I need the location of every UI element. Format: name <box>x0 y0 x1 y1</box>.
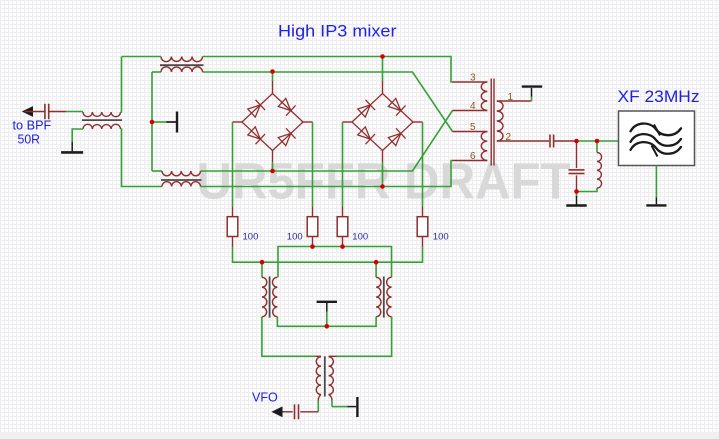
svg-text:100: 100 <box>287 231 303 242</box>
svg-text:4: 4 <box>470 101 476 112</box>
svg-text:VFO: VFO <box>252 390 278 405</box>
svg-text:100: 100 <box>352 231 368 242</box>
svg-text:1: 1 <box>508 92 514 103</box>
svg-text:6: 6 <box>470 151 476 162</box>
svg-text:5: 5 <box>470 122 476 133</box>
svg-text:XF 23MHz: XF 23MHz <box>618 87 700 106</box>
svg-text:UR5FFR DRAFT: UR5FFR DRAFT <box>197 152 571 209</box>
svg-text:High IP3 mixer: High IP3 mixer <box>278 23 397 41</box>
svg-text:2: 2 <box>506 132 512 143</box>
svg-text:to BPF: to BPF <box>13 118 52 132</box>
svg-text:100: 100 <box>433 231 449 242</box>
svg-text:100: 100 <box>243 231 259 242</box>
svg-text:3: 3 <box>470 72 476 83</box>
svg-text:50R: 50R <box>18 133 41 147</box>
